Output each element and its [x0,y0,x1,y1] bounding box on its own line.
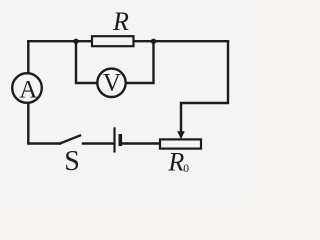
svg-text:S: S [64,146,80,177]
svg-text:R: R [167,148,184,177]
svg-text:V: V [103,69,121,96]
svg-text:R: R [112,7,129,36]
svg-text:0: 0 [183,163,189,175]
svg-text:A: A [19,76,37,103]
